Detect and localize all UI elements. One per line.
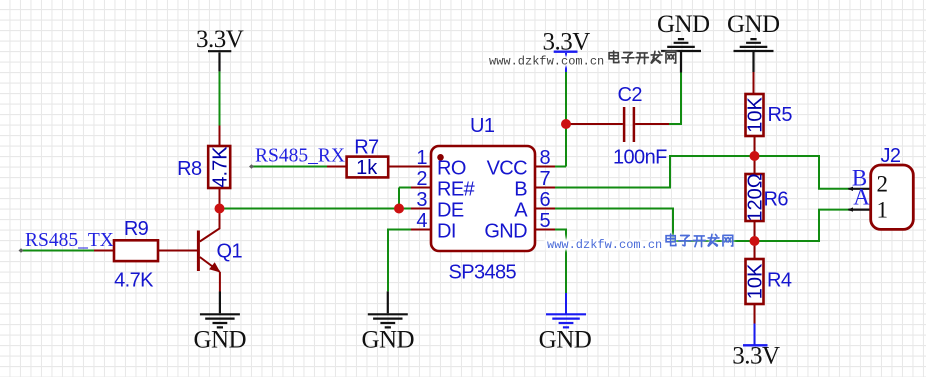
svg-text:RO: RO bbox=[437, 158, 466, 180]
svg-text:4.7K: 4.7K bbox=[114, 269, 154, 291]
svg-text:3: 3 bbox=[416, 189, 427, 211]
svg-text:J2: J2 bbox=[881, 145, 901, 167]
svg-text:3.3V: 3.3V bbox=[543, 29, 591, 56]
svg-text:R7: R7 bbox=[354, 136, 379, 158]
svg-text:R6: R6 bbox=[764, 188, 789, 210]
svg-text:R5: R5 bbox=[768, 104, 793, 126]
svg-text:B: B bbox=[514, 179, 527, 201]
svg-text:RE#: RE# bbox=[437, 179, 476, 201]
svg-text:1: 1 bbox=[416, 147, 427, 169]
svg-text:100nF: 100nF bbox=[613, 147, 667, 169]
svg-text:SP3485: SP3485 bbox=[449, 261, 517, 283]
svg-text:8: 8 bbox=[540, 147, 551, 169]
svg-text:GND: GND bbox=[193, 327, 246, 354]
svg-text:GND: GND bbox=[361, 327, 414, 354]
svg-text:GND: GND bbox=[657, 11, 710, 38]
svg-text:VCC: VCC bbox=[487, 158, 528, 180]
svg-text:A: A bbox=[853, 185, 870, 210]
svg-text:R4: R4 bbox=[767, 270, 792, 292]
svg-text:10K: 10K bbox=[745, 263, 767, 299]
svg-text:5: 5 bbox=[540, 210, 551, 232]
svg-text:www.dzkfw.com.cn: www.dzkfw.com.cn bbox=[489, 55, 604, 69]
svg-text:RS485_RX: RS485_RX bbox=[255, 146, 345, 167]
svg-text:GND: GND bbox=[484, 221, 527, 243]
svg-text:2: 2 bbox=[416, 168, 427, 190]
svg-text:R9: R9 bbox=[124, 218, 149, 240]
svg-text:4.7K: 4.7K bbox=[209, 146, 231, 188]
svg-text:DI: DI bbox=[437, 221, 456, 243]
svg-text:C2: C2 bbox=[618, 84, 643, 106]
svg-text:GND: GND bbox=[727, 11, 780, 38]
svg-text:RS485_TX: RS485_TX bbox=[25, 230, 114, 251]
svg-text:www.dzkfw.com.cn: www.dzkfw.com.cn bbox=[547, 238, 662, 252]
svg-text:1k: 1k bbox=[356, 157, 378, 179]
svg-text:120Ω: 120Ω bbox=[745, 173, 767, 221]
svg-text:Q1: Q1 bbox=[217, 241, 243, 263]
svg-text:GND: GND bbox=[539, 327, 592, 354]
svg-text:1: 1 bbox=[877, 198, 889, 223]
svg-text:3.3V: 3.3V bbox=[196, 26, 244, 53]
svg-text:10K: 10K bbox=[745, 97, 767, 133]
svg-text:DE: DE bbox=[437, 200, 464, 222]
svg-text:6: 6 bbox=[540, 189, 551, 211]
svg-text:7: 7 bbox=[540, 168, 551, 190]
svg-text:U1: U1 bbox=[470, 115, 495, 137]
svg-text:A: A bbox=[514, 200, 528, 222]
svg-text:2: 2 bbox=[877, 172, 889, 197]
svg-text:R8: R8 bbox=[177, 158, 202, 180]
svg-text:3.3V: 3.3V bbox=[732, 342, 780, 369]
svg-text:4: 4 bbox=[416, 210, 427, 232]
